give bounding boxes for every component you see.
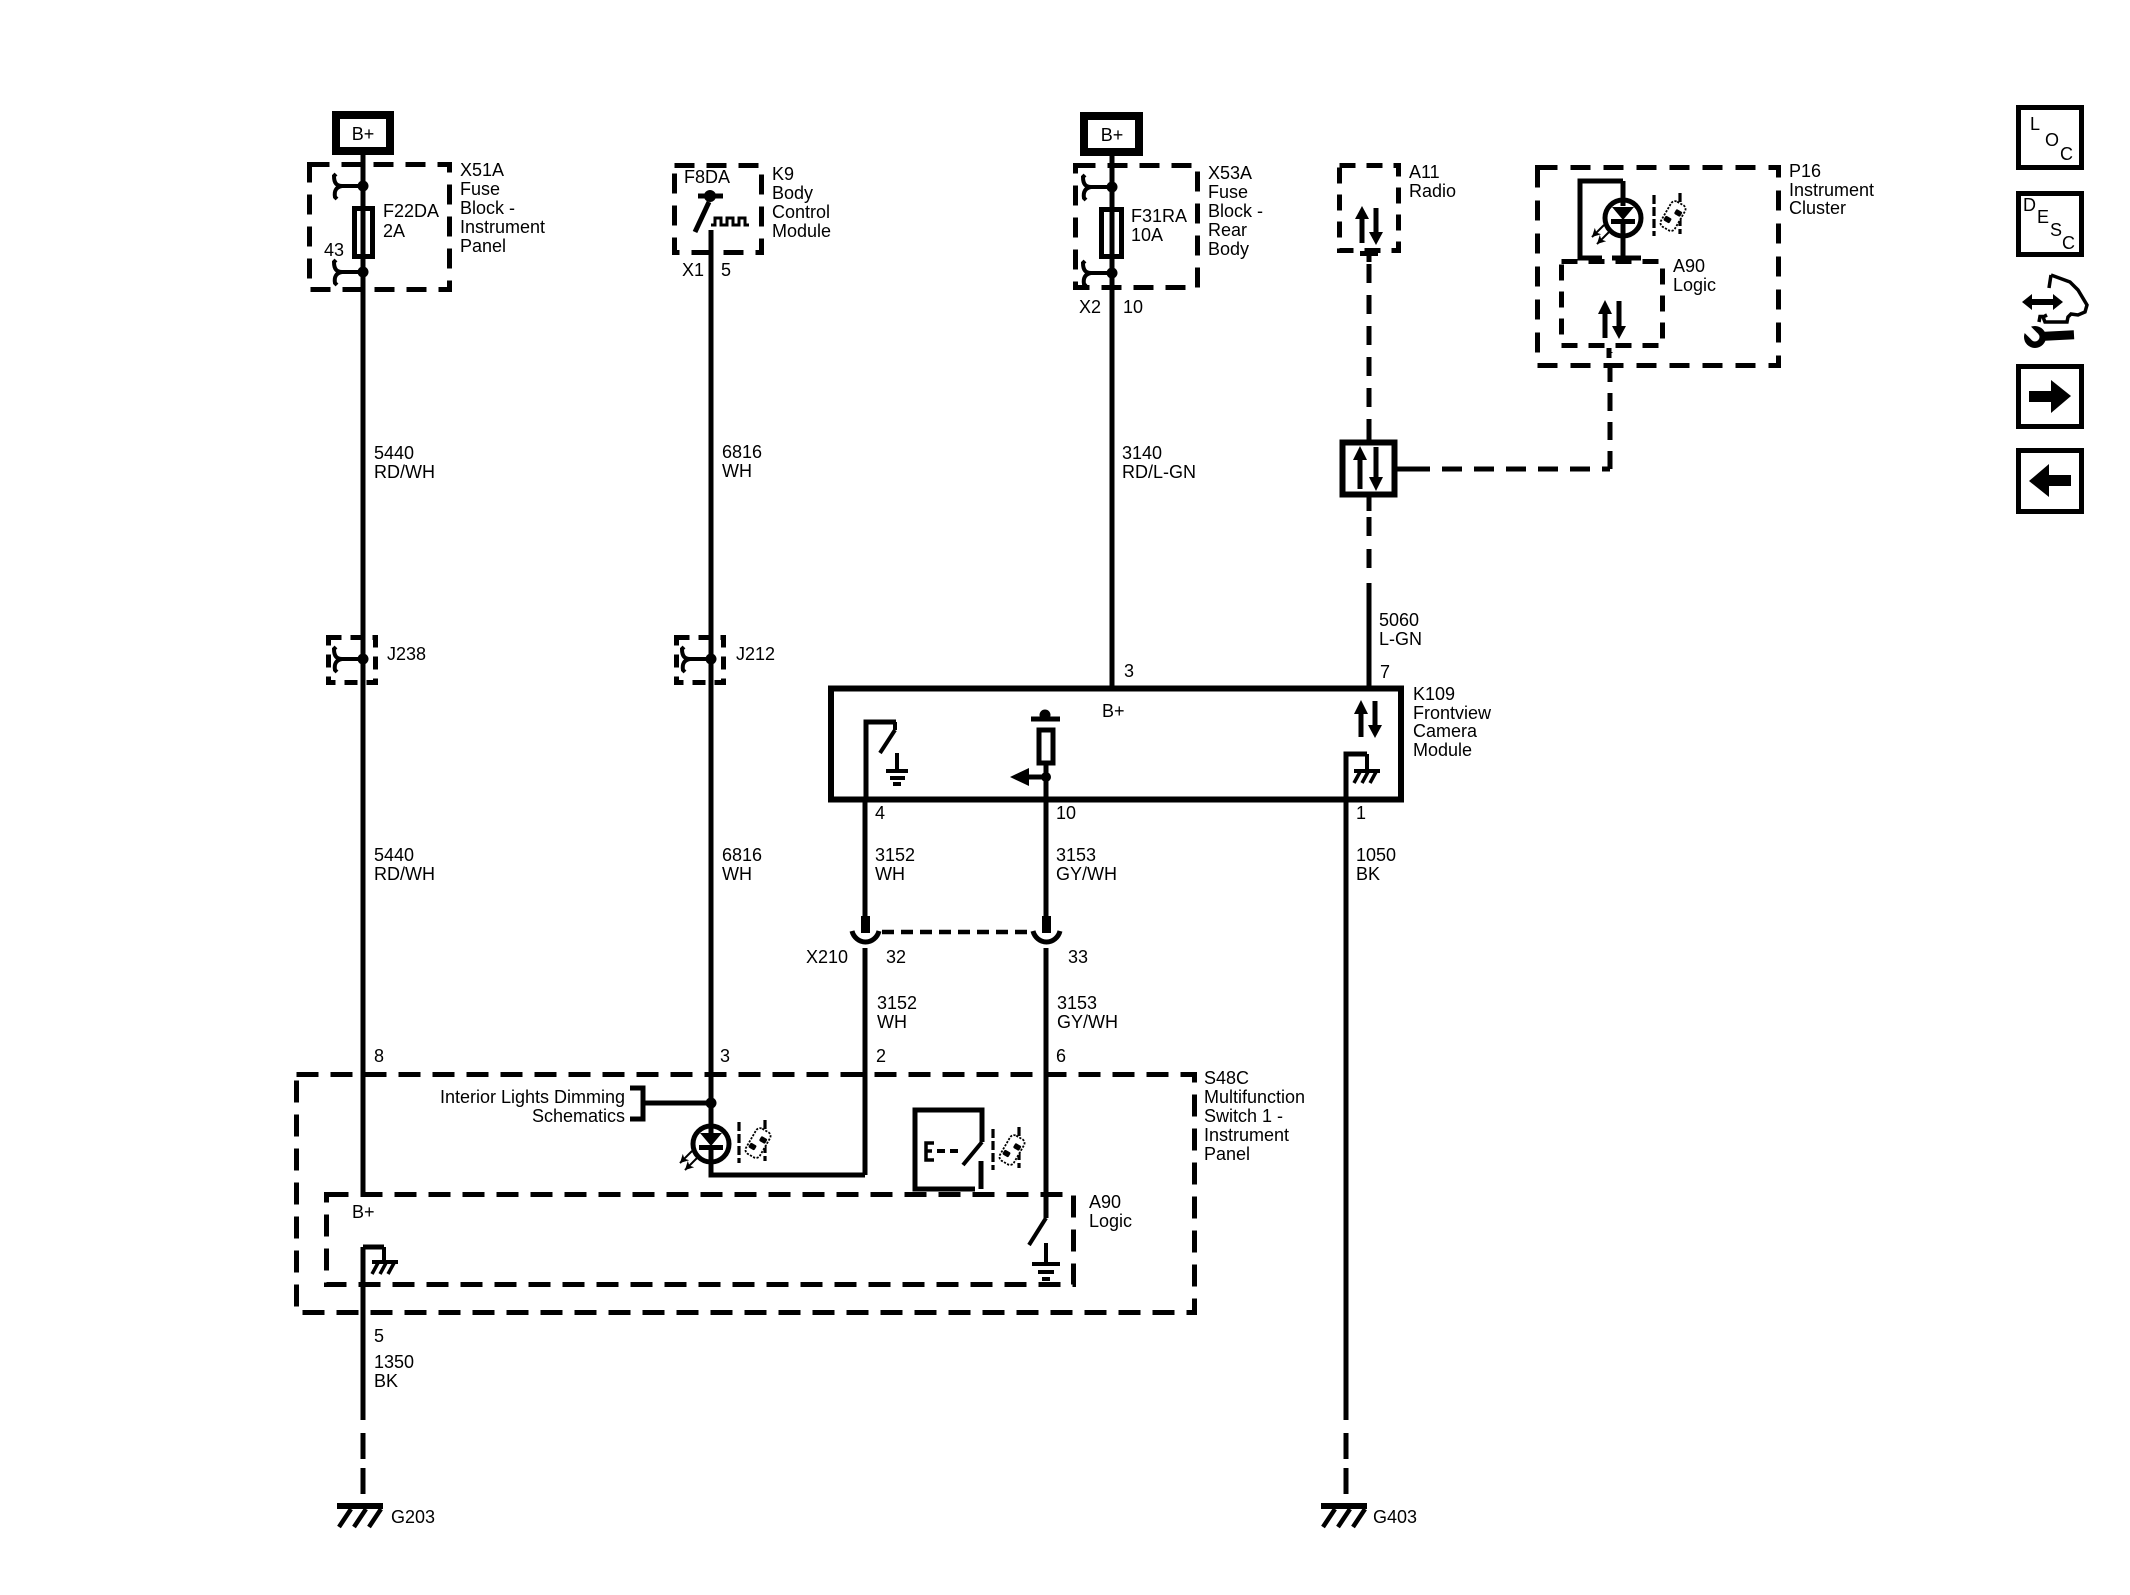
P16 label block — [1789, 161, 1874, 218]
internal chassis ground (A90 of S48C) — [363, 1247, 398, 1274]
svg-text:RD/WH: RD/WH — [374, 462, 435, 482]
svg-text:F31RA: F31RA — [1131, 206, 1187, 226]
K9 high-side driver symbol — [695, 190, 749, 232]
wire label 6816 WH (upper) — [722, 442, 762, 481]
frontview camera module K109 box — [831, 689, 1401, 800]
wire label 3140 RD/L-GN — [1122, 443, 1196, 482]
svg-text:5: 5 — [721, 260, 731, 280]
svg-text:3152: 3152 — [875, 845, 915, 865]
svg-text:B+: B+ — [1101, 125, 1124, 145]
svg-text:GY/WH: GY/WH — [1057, 1012, 1118, 1032]
svg-text:Instrument: Instrument — [1789, 180, 1874, 200]
svg-text:6: 6 — [1056, 1046, 1066, 1066]
svg-text:L-GN: L-GN — [1379, 629, 1422, 649]
reference note Interior Lights Dimming Schematics — [440, 1087, 643, 1126]
X210 connector labels — [806, 947, 1088, 967]
dashed data branch to instrument cluster — [1410, 467, 1610, 472]
node stub at A11 bottom — [1360, 253, 1378, 262]
multifunction switch S48C dashed box — [297, 1075, 1195, 1313]
wire label 3153 GY/WH (upper) — [1056, 845, 1117, 884]
ground G203 — [337, 1506, 435, 1527]
svg-text:Fuse: Fuse — [460, 179, 500, 199]
svg-text:10: 10 — [1056, 803, 1076, 823]
svg-text:B+: B+ — [352, 1202, 375, 1222]
fuse block X51A dashed box — [310, 165, 450, 290]
svg-text:X1: X1 — [682, 260, 704, 280]
svg-text:WH: WH — [877, 1012, 907, 1032]
svg-text:1050: 1050 — [1356, 845, 1396, 865]
svg-text:2: 2 — [876, 1046, 886, 1066]
logic block A90 dashed box (S48C) — [327, 1195, 1074, 1285]
svg-text:Instrument: Instrument — [1204, 1125, 1289, 1145]
svg-text:Body: Body — [772, 183, 813, 203]
wire label 5060 L-GN — [1379, 610, 1422, 649]
svg-text:5060: 5060 — [1379, 610, 1419, 630]
wire 3153 GY/WH from K109 pin 10 — [1044, 797, 1049, 918]
internal chassis ground (K109 pin 1) — [1346, 754, 1380, 799]
wire 5440 RD/WH vertical run from B+ to S48C pin 8 — [361, 155, 366, 1192]
svg-text:10: 10 — [1123, 297, 1143, 317]
svg-text:3: 3 — [720, 1046, 730, 1066]
svg-text:Logic: Logic — [1673, 275, 1716, 295]
instrument cluster P16 dashed box — [1538, 168, 1779, 366]
LED indicator symbol (P16) — [1589, 200, 1641, 247]
svg-text:Instrument: Instrument — [460, 217, 545, 237]
svg-text:L: L — [2030, 114, 2040, 134]
svg-text:K109: K109 — [1413, 684, 1455, 704]
backlight LED symbol (S48C) — [677, 1126, 729, 1173]
svg-text:3153: 3153 — [1056, 845, 1096, 865]
svg-text:3140: 3140 — [1122, 443, 1162, 463]
wire label 3152 WH (upper) — [875, 845, 915, 884]
svg-text:S: S — [2050, 220, 2062, 240]
dashed data riser to A90 logic of P16 — [1608, 352, 1613, 469]
sidebar DESC button — [2019, 194, 2082, 255]
serial data arrows inside node box — [1353, 446, 1383, 491]
dashed data wire A11 to serial node box — [1367, 264, 1372, 430]
svg-text:6816: 6816 — [722, 845, 762, 865]
svg-text:32: 32 — [886, 947, 906, 967]
serial data arrows inside A90 (P16) — [1598, 300, 1626, 339]
svg-text:B+: B+ — [352, 124, 375, 144]
pin X1 5 labels — [682, 260, 731, 280]
A90 label block (S48C) — [1089, 1192, 1132, 1231]
wire 3152 WH from K109 pin 4 — [863, 797, 868, 918]
svg-text:Radio: Radio — [1409, 181, 1456, 201]
pin X2 10 labels — [1079, 297, 1143, 317]
svg-text:Block -: Block - — [460, 198, 515, 218]
svg-text:C: C — [2062, 233, 2075, 253]
svg-text:Panel: Panel — [1204, 1144, 1250, 1164]
logic block A90 dashed box (P16) — [1562, 262, 1663, 346]
K9 label block — [772, 164, 831, 241]
wire label 5440 RD/WH (lower) — [374, 845, 435, 884]
car option icon (S48C switch) — [993, 1127, 1026, 1170]
inline connector J238 — [329, 638, 427, 683]
svg-text:Cluster: Cluster — [1789, 198, 1846, 218]
fuse block X53A dashed box — [1076, 166, 1198, 288]
wire label 3153 GY/WH (lower) — [1057, 993, 1118, 1032]
wire from LED to pin 2 leg — [711, 1149, 865, 1175]
svg-text:3152: 3152 — [877, 993, 917, 1013]
svg-text:Frontview: Frontview — [1413, 703, 1492, 723]
svg-text:WH: WH — [722, 864, 752, 884]
svg-text:Logic: Logic — [1089, 1211, 1132, 1231]
wire label 1050 BK — [1356, 845, 1396, 884]
svg-text:WH: WH — [722, 461, 752, 481]
svg-text:3153: 3153 — [1057, 993, 1097, 1013]
svg-text:Rear: Rear — [1208, 220, 1247, 240]
wire label 6816 WH (lower) — [722, 845, 762, 884]
K109 label block — [1413, 684, 1492, 760]
svg-text:P16: P16 — [1789, 161, 1821, 181]
wire 1350 BK from A90 ground to G203 — [361, 1247, 366, 1500]
serial data arrows inside K109 (pin 7) — [1354, 700, 1382, 738]
power symbol B+ (battery feed, middle) — [1084, 116, 1139, 152]
svg-text:5: 5 — [374, 1326, 384, 1346]
svg-text:4: 4 — [875, 803, 885, 823]
power symbol B+ (battery feed, left) — [336, 115, 390, 151]
serial data arrows inside A11 — [1355, 206, 1383, 245]
svg-text:Body: Body — [1208, 239, 1249, 259]
svg-text:E: E — [2037, 207, 2049, 227]
connector X210 terminal 33 — [1033, 916, 1060, 1218]
connector X210 terminal 32 — [852, 916, 879, 1175]
A11 label block — [1409, 162, 1456, 201]
svg-text:Control: Control — [772, 202, 830, 222]
terminal clip (fuse output) — [334, 260, 369, 285]
svg-text:G403: G403 — [1373, 1507, 1417, 1527]
svg-text:BK: BK — [1356, 864, 1380, 884]
sidebar LOC button — [2019, 108, 2082, 168]
svg-text:C: C — [2060, 144, 2073, 164]
fuse F31RA 10A — [1102, 210, 1122, 257]
svg-text:X210: X210 — [806, 947, 848, 967]
svg-text:RD/L-GN: RD/L-GN — [1122, 462, 1196, 482]
wire label 5440 RD/WH (upper) — [374, 443, 435, 482]
svg-text:1: 1 — [1356, 803, 1366, 823]
svg-text:2A: 2A — [383, 221, 405, 241]
sidebar repair icon (arrow, panel outline, wrench) — [2018, 275, 2087, 348]
svg-text:X51A: X51A — [460, 160, 504, 180]
fuse F22DA 2A — [355, 209, 373, 257]
svg-text:F22DA: F22DA — [383, 201, 439, 221]
wire 3140 RD/L-GN from B+ to K109 pin 3 — [1110, 156, 1115, 687]
car option icon (P16 indicator) — [1654, 193, 1687, 236]
inline connector J212 — [677, 638, 776, 683]
internal sensed resistor with wiper arrow (K109 pin 10) — [1010, 710, 1060, 800]
svg-text:3: 3 — [1124, 661, 1134, 681]
svg-text:5440: 5440 — [374, 845, 414, 865]
svg-text:O: O — [2045, 130, 2059, 150]
wire label 1350 BK — [374, 1352, 414, 1391]
svg-text:Fuse: Fuse — [1208, 182, 1248, 202]
svg-text:Module: Module — [772, 221, 831, 241]
svg-text:8: 8 — [374, 1046, 384, 1066]
svg-text:F8DA: F8DA — [684, 167, 730, 187]
terminal clip (F31RA input) — [1083, 175, 1118, 200]
svg-text:J238: J238 — [387, 644, 426, 664]
svg-text:X53A: X53A — [1208, 163, 1252, 183]
multifunction switch contact box — [915, 1110, 982, 1189]
svg-text:D: D — [2023, 195, 2036, 215]
S48C label block — [1204, 1068, 1305, 1164]
X53A label block — [1208, 163, 1263, 259]
ground G403 — [1321, 1506, 1417, 1527]
svg-text:Panel: Panel — [460, 236, 506, 256]
stub from node box to dashed branch — [1397, 467, 1410, 472]
svg-text:B+: B+ — [1102, 701, 1125, 721]
svg-text:Switch 1 -: Switch 1 - — [1204, 1106, 1283, 1126]
svg-text:A90: A90 — [1089, 1192, 1121, 1212]
dashed data wire below node box — [1367, 497, 1372, 687]
svg-text:Multifunction: Multifunction — [1204, 1087, 1305, 1107]
svg-text:A11: A11 — [1409, 162, 1440, 182]
body control module K9 output F8DA dashed box — [675, 166, 762, 253]
svg-text:Schematics: Schematics — [532, 1106, 625, 1126]
internal switch to ground (K109 pin 4) — [866, 722, 908, 799]
svg-text:Module: Module — [1413, 740, 1472, 760]
svg-text:10A: 10A — [1131, 225, 1163, 245]
svg-text:Interior Lights Dimming: Interior Lights Dimming — [440, 1087, 625, 1107]
wire 6816 WH from K9 to S48C pin 3 — [709, 230, 714, 1133]
svg-text:Block -: Block - — [1208, 201, 1263, 221]
radio A11 dashed box — [1340, 166, 1399, 251]
svg-text:7: 7 — [1380, 662, 1390, 682]
svg-text:WH: WH — [875, 864, 905, 884]
svg-text:A90: A90 — [1673, 256, 1705, 276]
serial data node box — [1343, 443, 1395, 495]
svg-text:6816: 6816 — [722, 442, 762, 462]
svg-text:RD/WH: RD/WH — [374, 864, 435, 884]
A90 label block (P16) — [1673, 256, 1716, 295]
svg-text:1350: 1350 — [374, 1352, 414, 1372]
wire from note bracket to dimming feed node — [643, 1101, 711, 1106]
indicator LED loop (P16) — [1580, 181, 1641, 258]
svg-text:BK: BK — [374, 1371, 398, 1391]
svg-text:X2: X2 — [1079, 297, 1101, 317]
svg-text:Camera: Camera — [1413, 721, 1478, 741]
dotted harness tie between X210 terminals — [882, 930, 1031, 935]
svg-text:GY/WH: GY/WH — [1056, 864, 1117, 884]
X51A label block — [460, 160, 545, 256]
sidebar next button (right arrow) — [2019, 367, 2082, 427]
terminal clip (F31RA output) — [1083, 261, 1118, 286]
svg-text:5440: 5440 — [374, 443, 414, 463]
sidebar back button (left arrow) — [2019, 451, 2082, 512]
switch lever to ground (pin 6 leg) — [1029, 1218, 1060, 1279]
terminal clip (fuse input) — [334, 174, 369, 199]
wire label 3152 WH (lower) — [877, 993, 917, 1032]
svg-text:G203: G203 — [391, 1507, 435, 1527]
car option icon (S48C backlight) — [739, 1120, 772, 1163]
svg-text:33: 33 — [1068, 947, 1088, 967]
svg-text:J212: J212 — [736, 644, 775, 664]
svg-text:K9: K9 — [772, 164, 794, 184]
wire 1050 BK from K109 pin 1 to G403 — [1344, 797, 1349, 1500]
svg-text:S48C: S48C — [1204, 1068, 1249, 1088]
svg-text:43: 43 — [324, 240, 344, 260]
junction node (dimming feed) — [706, 1098, 717, 1109]
